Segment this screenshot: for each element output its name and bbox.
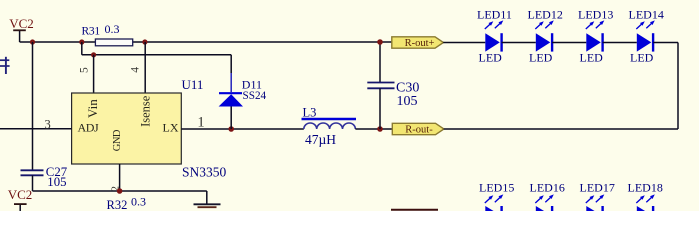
svg-text:L3: L3 xyxy=(303,106,317,120)
svg-text:R-out+: R-out+ xyxy=(405,38,435,49)
svg-text:Vin: Vin xyxy=(85,99,100,118)
LED15 (clipped by bottom edge) xyxy=(479,180,514,211)
chinese annotation 节 (clipped at left edge) xyxy=(0,57,10,74)
wire: rail from R31 right to R-out+ junction xyxy=(132,41,392,43)
svg-text:1: 1 xyxy=(197,114,204,130)
svg-text:47µH: 47µH xyxy=(305,132,336,147)
svg-text:LED: LED xyxy=(479,51,503,65)
svg-text:LED: LED xyxy=(630,51,654,65)
power port VC2 (bottom left) xyxy=(8,187,33,211)
junction: rail / Isense pin 4 (right of R31) xyxy=(142,39,147,44)
wire: LED13 to LED14 xyxy=(603,42,637,44)
svg-text:U11: U11 xyxy=(182,77,204,92)
resistor R31 xyxy=(82,22,133,46)
wire: VC2 rail top (y=42) from stub to R31 left xyxy=(20,41,96,43)
svg-text:SN3350: SN3350 xyxy=(182,165,227,180)
wire: LED12 to LED13 xyxy=(552,42,586,44)
junction: L3 / C30 / R-out- xyxy=(377,126,383,132)
wire: LED11 to LED12 xyxy=(502,42,536,44)
svg-text:LED11: LED11 xyxy=(477,8,512,22)
svg-text:VC2: VC2 xyxy=(8,187,33,202)
LED13 xyxy=(578,8,613,65)
junction: LX wire / D11 anode xyxy=(228,126,234,132)
junction: rail / C27 drop xyxy=(30,39,35,44)
svg-text:LED16: LED16 xyxy=(530,180,565,194)
svg-text:R31: R31 xyxy=(82,25,101,37)
svg-text:LX: LX xyxy=(163,120,179,134)
svg-text:4: 4 xyxy=(129,67,141,73)
wire: Vin branch (dot1 down, right to pin5, on to D11 cathode) xyxy=(82,42,231,92)
ground symbol xyxy=(194,191,221,207)
svg-text:LED13: LED13 xyxy=(578,8,613,22)
svg-text:R32: R32 xyxy=(107,198,128,212)
svg-text:LED14: LED14 xyxy=(629,8,664,22)
port R-out+ xyxy=(392,37,444,49)
wire: L3 to R-out- junction xyxy=(355,128,392,130)
LED14 xyxy=(629,8,664,65)
svg-text:LED: LED xyxy=(529,51,553,65)
wire: pin 4 from rail down to chip xyxy=(144,42,146,93)
svg-text:SS24: SS24 xyxy=(243,90,267,102)
wire: pin 5 down to chip xyxy=(93,55,95,93)
svg-text:105: 105 xyxy=(397,94,418,109)
wire: bottom GND net (C27 to ground) xyxy=(33,190,207,192)
junction: rail / Vin branch (left of R31) xyxy=(79,39,84,44)
LED18 (clipped by bottom edge) xyxy=(628,180,663,211)
junction: GND pin / bottom net xyxy=(117,188,123,194)
wire: ADJ pin 3 to left edge xyxy=(0,128,72,130)
capacitor C27 xyxy=(21,42,68,191)
LED16 (clipped by bottom edge) xyxy=(530,180,565,211)
maroon line segment (cropped element, bottom middle) xyxy=(391,209,438,211)
LED11 xyxy=(477,8,512,65)
svg-text:ADJ: ADJ xyxy=(78,120,100,134)
wire: LX pin 1 to L3 xyxy=(181,128,303,130)
svg-text:LED15: LED15 xyxy=(479,180,514,194)
LED17 (clipped by bottom edge) xyxy=(580,180,615,211)
svg-text:GND: GND xyxy=(112,129,123,151)
capacitor C30 xyxy=(367,42,419,129)
svg-text:3: 3 xyxy=(44,117,50,131)
svg-text:LED12: LED12 xyxy=(528,8,563,22)
op-amp U11 SN3350 body xyxy=(72,77,227,180)
svg-text:LED18: LED18 xyxy=(628,180,663,194)
wire: GND pin 2 from chip xyxy=(119,164,121,191)
svg-text:LED: LED xyxy=(580,51,604,65)
LED12 xyxy=(528,8,563,65)
junction: rail / C30 / R-out+ xyxy=(377,39,383,45)
svg-text:105: 105 xyxy=(47,175,66,189)
svg-text:0.3: 0.3 xyxy=(105,22,120,36)
wire: R-out+ to LED11 xyxy=(443,42,485,44)
power port VC2 (top left) xyxy=(9,16,34,42)
resistor R32 labels xyxy=(107,194,147,212)
junction: Vin branch / pin 5 xyxy=(91,52,96,57)
port R-out- xyxy=(392,123,444,135)
svg-text:0.3: 0.3 xyxy=(131,194,146,208)
svg-text:C30: C30 xyxy=(396,80,419,95)
inductor L3 47uH xyxy=(302,106,357,147)
svg-text:LED17: LED17 xyxy=(580,180,615,194)
wire: LED14 right, down right edge, back to R-out- xyxy=(444,43,678,130)
svg-text:Isense: Isense xyxy=(139,95,153,127)
svg-text:5: 5 xyxy=(79,67,91,73)
svg-text:VC2: VC2 xyxy=(9,16,34,31)
svg-text:R-out-: R-out- xyxy=(405,124,433,135)
diode D11 SS24 xyxy=(219,78,267,129)
